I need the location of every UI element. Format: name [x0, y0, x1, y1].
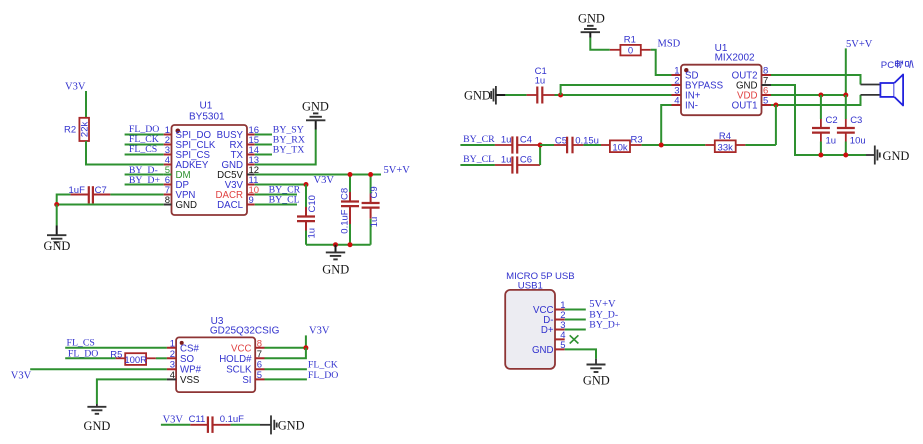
svg-text:10k: 10k: [612, 142, 628, 153]
svg-text:10u: 10u: [850, 136, 866, 147]
wire pin11 V3V: [255, 184, 306, 186]
svg-text:HOLD#: HOLD#: [219, 354, 252, 365]
svg-text:8: 8: [257, 338, 262, 349]
svg-text:C4: C4: [520, 134, 532, 145]
svg-text:FL_CS: FL_CS: [129, 144, 157, 155]
wire C5 to R3: [583, 144, 601, 146]
ground (top): [578, 12, 605, 38]
wire V3V to C11: [161, 424, 190, 426]
junction: [558, 93, 563, 98]
wire BY_SY: [255, 134, 272, 136]
op-amp U1 (MIX2002 amplifier): [681, 43, 762, 115]
svg-text:5V+V: 5V+V: [384, 165, 411, 176]
junction: [333, 242, 338, 247]
capacitor C6: [495, 154, 540, 173]
ground (right of C11): [260, 415, 305, 434]
wire HOLD# up to VCC: [265, 348, 306, 359]
wire GND to C1: [505, 94, 526, 96]
svg-text:5V+V: 5V+V: [846, 39, 873, 50]
svg-text:V3V: V3V: [314, 175, 335, 186]
ground: [44, 226, 71, 253]
capacitor C8: [339, 175, 359, 245]
svg-text:C11: C11: [189, 414, 206, 425]
capacitor C7: [69, 185, 111, 204]
svg-text:R1: R1: [624, 35, 636, 46]
speaker LS (PC speaker): [861, 75, 904, 106]
USB1 pin numbers: [560, 300, 565, 351]
U1 pin names left: [176, 130, 216, 211]
junction: [818, 153, 823, 158]
U3 pin numbers: [170, 338, 262, 381]
wire BY_CR: [460, 144, 495, 146]
USB1 pin stubs: [555, 310, 565, 350]
svg-text:C9: C9: [369, 186, 380, 198]
svg-text:5: 5: [763, 96, 768, 107]
resistor R3: [601, 135, 643, 154]
ground (left of C1): [464, 86, 505, 105]
wire BY_CL: [255, 204, 297, 206]
U1 pin numbers: [674, 66, 768, 107]
svg-text:GND: GND: [302, 100, 329, 114]
wire R5 to pin2: [156, 357, 167, 359]
svg-text:C2: C2: [826, 115, 838, 126]
wire C11 to ground: [231, 424, 260, 426]
svg-text:R2: R2: [64, 124, 76, 135]
wire GND rail to U1 pin8: [57, 204, 164, 206]
capacitor C3: [837, 95, 866, 155]
capacitor C5: [554, 136, 599, 154]
resistor R4: [705, 131, 745, 154]
svg-text:V3V: V3V: [65, 82, 86, 93]
svg-text:U1: U1: [200, 101, 213, 112]
svg-text:GND: GND: [278, 418, 305, 432]
svg-text:BY_CL: BY_CL: [463, 154, 494, 165]
capacitor C9: [362, 175, 381, 245]
U1 pin names right: [216, 130, 244, 211]
svg-text:GND: GND: [464, 88, 491, 102]
junction: [303, 345, 308, 350]
ground: [583, 359, 610, 388]
capacitor C11: [189, 414, 245, 433]
svg-text:1u: 1u: [307, 228, 318, 239]
svg-text:0.1uF: 0.1uF: [220, 414, 244, 425]
svg-text:MIX2002: MIX2002: [715, 53, 755, 64]
wire FL_CK: [125, 144, 164, 146]
svg-text:1u: 1u: [826, 136, 837, 147]
U1 pin numbers right: [249, 125, 260, 206]
svg-text:BY_TX: BY_TX: [273, 145, 305, 156]
U3 left pin stubs: [167, 348, 176, 380]
wire pin5 to ground: [565, 349, 596, 358]
wire pin4 down to R3/R4 rail: [661, 105, 671, 145]
wire ground to R1: [590, 38, 610, 50]
ground (right of rail): [866, 146, 909, 165]
svg-text:BY5301: BY5301: [189, 112, 225, 123]
resistor R2: [64, 118, 91, 141]
svg-text:V3V: V3V: [309, 325, 330, 336]
svg-text:1u: 1u: [501, 134, 512, 145]
junction: [54, 202, 59, 207]
U1 left pin stubs: [672, 75, 682, 105]
wire OUT2 to speaker: [771, 75, 861, 85]
svg-text:SI: SI: [242, 375, 251, 386]
wire BY_RX: [255, 144, 272, 146]
svg-text:GND: GND: [44, 239, 71, 253]
svg-text:DACL: DACL: [217, 200, 243, 211]
svg-text:OUT1: OUT1: [732, 101, 758, 112]
svg-text:2: 2: [170, 349, 175, 360]
capacitor C1: [527, 66, 555, 104]
wire C6 up to C4: [539, 145, 541, 165]
svg-text:5: 5: [257, 370, 262, 381]
svg-text:33k: 33k: [718, 142, 734, 153]
wire pin1: [565, 309, 586, 311]
ground: [84, 404, 111, 433]
svg-text:22k: 22k: [80, 121, 91, 137]
svg-text:4: 4: [674, 96, 679, 107]
wire pin7 GND to bottom rail: [771, 85, 866, 155]
svg-text:100R: 100R: [124, 355, 147, 366]
wire pin13 to ground: [255, 130, 316, 165]
junction: [304, 182, 309, 187]
resistor R1: [610, 35, 651, 57]
svg-text:V3V: V3V: [11, 371, 32, 382]
wire C7 left to GND: [57, 195, 71, 205]
svg-text:C8: C8: [339, 188, 350, 200]
capacitor C2: [812, 95, 838, 155]
ground: [322, 245, 349, 277]
svg-text:1: 1: [170, 338, 175, 349]
svg-text:CS#: CS#: [180, 343, 199, 354]
junction: [659, 143, 664, 148]
U1 right pin stubs: [762, 75, 772, 105]
junction: [348, 172, 353, 177]
wire OUT1 to speaker: [771, 95, 861, 105]
svg-text:GND: GND: [883, 149, 910, 163]
wire R2 to U1 pin4: [86, 141, 164, 165]
svg-text:GND: GND: [532, 345, 554, 356]
wire OUT1 down to R4: [775, 105, 777, 145]
wire pin3: [565, 329, 586, 331]
svg-text:GND: GND: [176, 200, 198, 211]
svg-text:GD25Q32CSIG: GD25Q32CSIG: [210, 326, 280, 337]
wire R4 to OUT1: [745, 144, 776, 146]
svg-text:4: 4: [170, 370, 175, 381]
junction: [773, 103, 778, 108]
wire pin12 5V+V rail: [255, 174, 381, 176]
USB1 pin names: [532, 305, 554, 356]
svg-text:SO: SO: [180, 354, 194, 365]
wire pin2: [565, 319, 586, 321]
svg-text:C6: C6: [520, 154, 532, 165]
junction: [348, 242, 353, 247]
svg-text:1u: 1u: [535, 75, 546, 86]
U1 left pin stubs: [164, 135, 172, 205]
wire BY_D+: [125, 184, 164, 186]
junction: [538, 143, 543, 148]
svg-text:FL_DO: FL_DO: [308, 370, 338, 381]
wire BY_TX: [255, 154, 272, 156]
wire FL_DO: [125, 134, 164, 136]
wire V3V to R2: [85, 91, 87, 118]
capacitor C4: [495, 134, 540, 153]
svg-text:GND: GND: [583, 374, 610, 388]
op-amp U1 (BY5301 audio IC): [172, 101, 248, 216]
U3 right pin stubs: [255, 348, 264, 380]
U3 pin names: [180, 343, 252, 386]
wire FL_DO to R5: [65, 357, 116, 359]
svg-text:GND: GND: [84, 419, 111, 433]
svg-text:VSS: VSS: [180, 375, 200, 386]
wire to C5: [540, 144, 554, 146]
svg-text:IN-: IN-: [685, 101, 698, 112]
svg-text:C10: C10: [307, 195, 318, 212]
svg-text:BY_D+: BY_D+: [589, 319, 621, 330]
U1 right pin stubs: [247, 135, 255, 205]
wire SI: [265, 378, 307, 380]
svg-text:9: 9: [249, 195, 254, 206]
connector USB1 (MICRO 5P USB): [505, 271, 575, 369]
svg-text:7: 7: [257, 349, 262, 360]
junction: [843, 93, 848, 98]
wire BY_CL: [460, 164, 495, 166]
no-connect X on pin4: [570, 335, 579, 343]
wire junction up to pin2: [561, 85, 672, 95]
wire V3V to WP#: [30, 368, 167, 370]
svg-text:C3: C3: [850, 115, 862, 126]
transistor U3 (GD25Q32CSIG flash): [176, 316, 279, 392]
wire BY_CR: [255, 194, 297, 196]
wire 5V+V down: [845, 48, 847, 95]
wire VDD rail: [771, 94, 846, 96]
resistor R5: [110, 350, 156, 366]
svg-text:0.1uF: 0.1uF: [340, 209, 351, 233]
junction: [818, 93, 823, 98]
svg-text:8: 8: [165, 195, 170, 206]
svg-text:PC: PC: [881, 60, 894, 71]
wire R1 to U1 pin1: [651, 50, 672, 75]
svg-text:VCC: VCC: [231, 343, 251, 354]
svg-text:1u: 1u: [501, 154, 512, 165]
wire to ground: [56, 205, 58, 226]
svg-text:R3: R3: [631, 135, 643, 146]
wire bottom rail: [306, 244, 371, 246]
svg-text:MSD: MSD: [658, 39, 681, 50]
svg-text:V3V: V3V: [163, 414, 184, 425]
capacitor C10: [297, 185, 318, 245]
wire FL_CS: [65, 347, 167, 349]
label PC speaker: [881, 60, 913, 71]
svg-text:GND: GND: [322, 263, 349, 277]
U1 pin numbers left: [165, 125, 170, 206]
svg-text:BY_CR: BY_CR: [463, 134, 495, 145]
U1 pin names: [685, 71, 758, 112]
wire FL_CS: [125, 154, 164, 156]
ground (above U1): [302, 100, 329, 130]
svg-text:0: 0: [628, 46, 633, 57]
svg-text:1u: 1u: [369, 217, 380, 228]
svg-text:R4: R4: [719, 131, 731, 142]
junction: [368, 172, 373, 177]
wire C7 to U1 pin7: [110, 194, 163, 196]
wire SCLK: [265, 368, 307, 370]
svg-text:D+: D+: [541, 325, 554, 336]
svg-text:GND: GND: [578, 12, 605, 26]
wire C1 to pin3: [555, 94, 672, 96]
wire VCC: [265, 347, 306, 349]
wire VSS to ground: [97, 379, 167, 404]
wire BY_D-: [125, 174, 164, 176]
junction: [843, 153, 848, 158]
wire R3 to R4: [642, 144, 706, 146]
wire V3V down: [305, 335, 307, 347]
